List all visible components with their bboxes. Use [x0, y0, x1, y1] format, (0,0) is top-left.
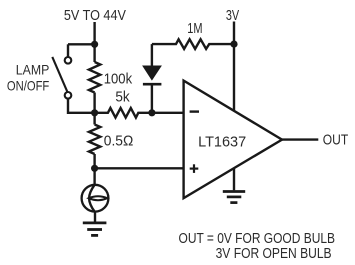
- op-amp U1 ground pin: [233, 168, 235, 190]
- svg-text:LT1637: LT1637: [198, 134, 246, 150]
- wire diode cathode to node B: [151, 86, 153, 113]
- junction supply/switch: [91, 41, 98, 48]
- wire 100k to node A: [93, 93, 95, 125]
- svg-text:OUT = 0V FOR GOOD BULB: OUT = 0V FOR GOOD BULB: [179, 231, 336, 247]
- svg-text:100k: 100k: [104, 72, 133, 88]
- op-amp U1 LT1637 body: [184, 81, 282, 199]
- wire node C to op-amp plus input: [95, 167, 184, 169]
- wire supply rail vertical: [93, 22, 95, 62]
- label LAMP ON/OFF: [7, 63, 49, 94]
- resistor R1 100k: [89, 62, 100, 93]
- switch S1 arm: [52, 57, 67, 92]
- diode D1 anode triangle: [142, 66, 162, 81]
- svg-text:LAMP: LAMP: [16, 63, 50, 78]
- svg-text:5V TO 44V: 5V TO 44V: [64, 8, 126, 24]
- resistor R4 1M: [152, 39, 234, 49]
- svg-text:OUT: OUT: [323, 133, 348, 149]
- op-amp U1 minus symbol: [190, 110, 199, 112]
- wire op-amp output: [282, 138, 318, 140]
- ground GND1: [83, 223, 107, 236]
- diode D1 connection wire top: [151, 44, 153, 65]
- svg-text:1M: 1M: [187, 21, 202, 37]
- lamp DS1 bulb: [82, 185, 109, 212]
- svg-text:3V FOR OPEN BULB: 3V FOR OPEN BULB: [216, 246, 332, 262]
- junction 3V/1M: [230, 41, 237, 48]
- svg-text:5k: 5k: [115, 90, 130, 106]
- svg-text:0.5Ω: 0.5Ω: [104, 134, 134, 150]
- ground GND2: [223, 192, 245, 203]
- wire 3V rail and op-amp power pin: [233, 22, 235, 111]
- resistor R2 5k: [95, 108, 152, 118]
- wire 0.5ohm to lamp: [93, 154, 95, 185]
- wire switch bottom to node A: [68, 99, 95, 113]
- svg-text:ON/OFF: ON/OFF: [7, 78, 49, 93]
- lamp DS1 filament lead curve: [89, 185, 94, 212]
- svg-text:3V: 3V: [226, 8, 239, 24]
- op-amp U1 plus symbol: [190, 164, 199, 173]
- wire node B to op-amp minus input: [152, 112, 184, 114]
- switch S1 top contact: [65, 57, 72, 64]
- wire switch top horizontal: [68, 43, 95, 45]
- lamp DS1 filament lens: [89, 196, 108, 200]
- junction node C (non-inverting input): [91, 165, 98, 172]
- diode D1 cathode bar: [143, 83, 162, 86]
- resistor R3 0.5ohm: [89, 125, 100, 155]
- switch S1 bottom contact: [65, 92, 72, 99]
- junction node B (inverting input): [148, 109, 155, 116]
- wire switch top drop: [67, 44, 69, 57]
- junction node A: [91, 109, 98, 116]
- wire lamp to ground: [94, 212, 96, 222]
